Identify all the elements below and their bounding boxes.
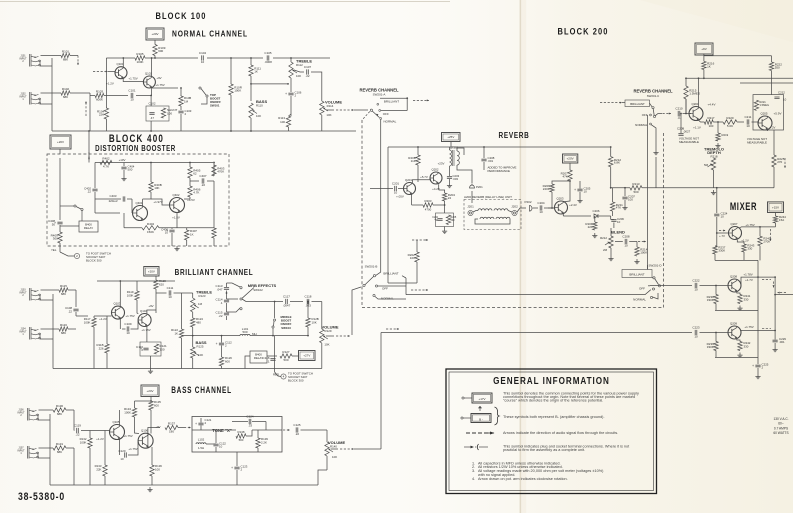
- svg-text:500: 500: [283, 358, 288, 362]
- svg-text:2M: 2M: [603, 248, 608, 252]
- svg-text:C204: C204: [537, 201, 545, 205]
- svg-text:.001: .001: [488, 159, 494, 163]
- svg-text:R114: R114: [327, 104, 334, 108]
- svg-text:R203: R203: [425, 199, 432, 203]
- svg-text:+.2V: +.2V: [770, 126, 776, 130]
- svg-text:NORMAL: NORMAL: [633, 298, 646, 302]
- svg-text:10: 10: [165, 231, 169, 235]
- svg-text:68K: 68K: [61, 292, 66, 296]
- svg-text:C124: C124: [246, 415, 254, 419]
- svg-text:1.5MEG: 1.5MEG: [760, 103, 770, 107]
- svg-text:10: 10: [539, 210, 543, 214]
- svg-text:330K: 330K: [718, 249, 725, 253]
- svg-text:330: 330: [744, 297, 749, 301]
- svg-text:C111: C111: [167, 286, 174, 290]
- svg-text:R138: R138: [238, 430, 245, 434]
- svg-text:OFF: OFF: [383, 112, 389, 116]
- svg-text:4.7K: 4.7K: [103, 165, 109, 169]
- svg-text:+17V: +17V: [478, 397, 485, 401]
- svg-text:+: +: [231, 466, 233, 470]
- svg-text:R402: R402: [102, 157, 110, 161]
- svg-text:+10V: +10V: [119, 158, 126, 162]
- svg-text:+9V: +9V: [156, 76, 161, 80]
- svg-text:10: 10: [783, 98, 787, 102]
- svg-text:C101: C101: [128, 89, 136, 93]
- svg-text:BRILLIANT: BRILLIANT: [384, 99, 399, 103]
- svg-text:+1.2V: +1.2V: [99, 317, 107, 321]
- svg-text:NORMAL: NORMAL: [381, 296, 394, 300]
- svg-text:C107: C107: [304, 65, 312, 69]
- svg-text:150K: 150K: [147, 230, 154, 234]
- svg-text:220: 220: [588, 225, 593, 229]
- svg-text:DISTORTION BOOSTER: DISTORTION BOOSTER: [95, 143, 176, 153]
- svg-text:Q105: Q105: [112, 420, 119, 424]
- svg-text:C212: C212: [778, 90, 785, 94]
- svg-text:480: 480: [196, 320, 201, 324]
- svg-text:10: 10: [394, 191, 398, 195]
- svg-text:A200 REVERB (DELAY LINE) UN: A200 REVERB (DELAY LINE) UNIT: [464, 195, 512, 199]
- svg-text:These symbols both represent B: These symbols both represent B- (amplifi…: [503, 415, 605, 419]
- svg-text:180: 180: [169, 430, 174, 434]
- svg-text:J202: J202: [511, 205, 518, 209]
- svg-text:500: 500: [633, 190, 638, 194]
- svg-text:BLOCK 300: BLOCK 300: [86, 258, 102, 262]
- svg-text:+25V: +25V: [447, 135, 454, 139]
- svg-text:6.8K: 6.8K: [614, 161, 620, 165]
- svg-text:REVERB: REVERB: [499, 130, 530, 140]
- svg-text:10: 10: [694, 335, 698, 339]
- svg-text:+9V: +9V: [701, 47, 706, 51]
- svg-text:L102: L102: [198, 438, 205, 442]
- svg-text:SW103: SW103: [281, 326, 291, 330]
- svg-text:270K: 270K: [763, 240, 770, 244]
- svg-text:.0027: .0027: [683, 130, 691, 134]
- svg-text:22K: 22K: [96, 467, 101, 471]
- svg-text:+: +: [752, 364, 754, 368]
- svg-text:500: 500: [242, 330, 247, 334]
- svg-text:.047: .047: [217, 288, 223, 292]
- svg-text:R213: R213: [632, 182, 640, 186]
- svg-text:SW102: SW102: [253, 288, 263, 292]
- svg-text:SW201-B: SW201-B: [365, 265, 378, 269]
- svg-text:100: 100: [410, 256, 415, 260]
- svg-text:+1.78V: +1.78V: [743, 273, 752, 277]
- svg-text:11K: 11K: [411, 159, 416, 163]
- svg-text:R123: R123: [199, 294, 206, 298]
- svg-text:10: 10: [126, 331, 130, 335]
- svg-text:500: 500: [451, 219, 456, 222]
- svg-text:10K: 10K: [154, 186, 159, 190]
- svg-text:+: +: [285, 92, 287, 96]
- svg-text:10K: 10K: [256, 114, 261, 118]
- svg-text:+: +: [195, 422, 197, 426]
- svg-text:Q402: Q402: [172, 193, 179, 197]
- svg-text:60 WATTS: 60 WATTS: [773, 431, 788, 435]
- svg-text:330: 330: [747, 247, 752, 251]
- svg-text:330K: 330K: [707, 345, 714, 349]
- svg-text:"course" which denotes the ori: "course" which denotes the origin of the…: [503, 399, 603, 403]
- svg-text:C109: C109: [124, 322, 132, 326]
- svg-text:+1.5V: +1.5V: [172, 216, 180, 220]
- svg-text:+23V: +23V: [438, 162, 445, 166]
- svg-text:T201: T201: [452, 146, 459, 150]
- svg-text:100K: 100K: [234, 89, 241, 93]
- svg-text:10: 10: [168, 295, 172, 299]
- svg-text:100K: 100K: [640, 251, 647, 255]
- svg-text:R129: R129: [325, 329, 332, 333]
- svg-text:Q102: Q102: [145, 71, 152, 75]
- svg-text:100K: 100K: [127, 293, 134, 297]
- svg-text:Arrow drawn on pot. arm indica: Arrow drawn on pot. arm indicates clockw…: [478, 477, 568, 481]
- svg-text:C118: C118: [305, 295, 312, 299]
- svg-text:226: 226: [99, 346, 104, 350]
- svg-text:1.5H: 1.5H: [198, 446, 204, 450]
- svg-text:470K: 470K: [217, 170, 224, 174]
- svg-text:R130: R130: [56, 404, 64, 408]
- svg-text:100: 100: [628, 198, 633, 202]
- svg-text:100K: 100K: [124, 410, 131, 414]
- svg-text:R103: R103: [96, 90, 104, 94]
- svg-text:+1.75V: +1.75V: [155, 83, 164, 87]
- svg-text:C120: C120: [119, 449, 126, 453]
- svg-text:300: 300: [53, 237, 58, 241]
- svg-text:.22: .22: [295, 432, 300, 436]
- svg-text:+.7V: +.7V: [719, 234, 725, 238]
- svg-text:+5.9V: +5.9V: [774, 112, 782, 116]
- svg-text:R404: R404: [147, 222, 155, 226]
- svg-text:+1.75V: +1.75V: [745, 223, 754, 227]
- svg-text:+5.7V: +5.7V: [420, 175, 428, 179]
- svg-text:10K: 10K: [326, 113, 331, 117]
- svg-text:22K: 22K: [99, 113, 104, 117]
- svg-text:NORMAL CHANNEL: NORMAL CHANNEL: [172, 29, 248, 39]
- svg-text:C201: C201: [392, 182, 400, 186]
- svg-text:1M: 1M: [184, 99, 189, 103]
- svg-text:SW201-C: SW201-C: [647, 94, 660, 98]
- svg-text:.22: .22: [201, 183, 206, 187]
- svg-text:10: 10: [120, 457, 124, 461]
- svg-text:10K: 10K: [324, 343, 329, 347]
- svg-text:+1.75V: +1.75V: [141, 328, 150, 332]
- svg-text:practical to firm the assembly: practical to firm the assembly as a comp…: [503, 448, 585, 452]
- svg-text:R116: R116: [60, 323, 67, 327]
- svg-text:GENERAL INFORMATION: GENERAL INFORMATION: [493, 375, 610, 386]
- svg-text:B -: B -: [479, 417, 483, 421]
- svg-text:60~: 60~: [778, 422, 784, 426]
- svg-text:Q202: Q202: [431, 167, 438, 171]
- svg-text:REVERB CHANNEL: REVERB CHANNEL: [633, 89, 673, 94]
- svg-text:10K: 10K: [312, 320, 317, 324]
- svg-text:.001: .001: [779, 340, 785, 344]
- svg-text:15A: 15A: [779, 218, 784, 222]
- svg-text:C206: C206: [593, 209, 600, 213]
- svg-text:5.6K: 5.6K: [727, 124, 733, 128]
- svg-text:R127: R127: [282, 350, 290, 354]
- svg-text:47K: 47K: [616, 206, 621, 210]
- svg-text:1M: 1M: [198, 302, 203, 306]
- svg-text:R137: R137: [168, 422, 176, 426]
- svg-text:10: 10: [201, 60, 205, 64]
- svg-text:BRILLIANT: BRILLIANT: [630, 102, 645, 106]
- svg-text:.33: .33: [248, 424, 253, 428]
- svg-text:2.2K: 2.2K: [261, 440, 267, 444]
- svg-text:+1.75V: +1.75V: [744, 325, 753, 329]
- svg-text:.22: .22: [218, 314, 223, 318]
- svg-text:C117: C117: [283, 295, 290, 299]
- svg-text:J201: J201: [467, 205, 474, 209]
- svg-text:100: 100: [160, 348, 165, 352]
- svg-text:+20V: +20V: [151, 32, 158, 36]
- svg-text:OFF: OFF: [639, 287, 645, 291]
- svg-text:62: 62: [193, 172, 197, 176]
- svg-text:SW201-D: SW201-D: [648, 264, 662, 268]
- svg-text:+9V: +9V: [155, 425, 160, 429]
- svg-text:220K: 220K: [543, 187, 550, 191]
- svg-text:R131: R131: [56, 442, 64, 446]
- svg-text:P202: P202: [524, 200, 531, 204]
- svg-text:10: 10: [219, 445, 223, 449]
- svg-text:+.05V: +.05V: [396, 195, 404, 199]
- svg-text:R219: R219: [722, 133, 729, 137]
- svg-text:.0047: .0047: [283, 304, 291, 308]
- svg-text:10: 10: [624, 244, 628, 248]
- svg-text:R140: R140: [330, 445, 337, 449]
- svg-text:0.7 AMPS: 0.7 AMPS: [774, 426, 788, 430]
- svg-text:130 V.A.C.: 130 V.A.C.: [773, 417, 788, 421]
- svg-text:C104: C104: [199, 51, 207, 55]
- svg-text:R101: R101: [62, 50, 70, 54]
- svg-text:BRILLIANT: BRILLIANT: [383, 272, 398, 276]
- svg-text:Q201: Q201: [405, 178, 412, 182]
- svg-text:Q101: Q101: [116, 62, 123, 66]
- svg-text:68K: 68K: [57, 412, 62, 416]
- svg-text:Q106: Q106: [141, 429, 148, 433]
- svg-text:10: 10: [694, 288, 698, 292]
- svg-text:.22: .22: [68, 309, 72, 313]
- svg-text:10K: 10K: [296, 74, 301, 78]
- svg-text:10K: 10K: [332, 455, 337, 459]
- svg-text:C211: C211: [745, 115, 752, 119]
- svg-text:C125: C125: [293, 423, 301, 427]
- svg-text:.1: .1: [220, 301, 223, 305]
- svg-text:RELAY: RELAY: [84, 226, 93, 230]
- svg-text:Q205: Q205: [760, 111, 767, 115]
- svg-text:+20V: +20V: [148, 269, 155, 273]
- svg-text:+27V: +27V: [303, 354, 310, 358]
- svg-text:C105: C105: [264, 51, 272, 55]
- svg-text:4.7K: 4.7K: [193, 191, 199, 195]
- svg-text:100: 100: [155, 467, 160, 471]
- svg-text:TONE "X": TONE "X": [212, 428, 231, 433]
- svg-text:R112: R112: [296, 63, 303, 67]
- svg-text:Q208: Q208: [730, 274, 737, 278]
- svg-text:C407: C407: [199, 174, 207, 178]
- svg-text:1.5MEG: 1.5MEG: [689, 92, 701, 96]
- svg-text:BASS CHANNEL: BASS CHANNEL: [171, 385, 232, 395]
- svg-text:C403: C403: [110, 194, 117, 198]
- svg-text:MEASURABLE: MEASURABLE: [747, 140, 767, 144]
- svg-text:22: 22: [448, 196, 452, 200]
- svg-text:Arrows indicate the direction: Arrows indicate the direction of audio s…: [503, 431, 618, 435]
- svg-text:R217: R217: [708, 116, 715, 120]
- svg-text:.22: .22: [305, 74, 310, 78]
- svg-text:+4.5V: +4.5V: [187, 198, 195, 202]
- svg-text:BLOCK 100: BLOCK 100: [156, 10, 207, 21]
- svg-text:4.: 4.: [472, 477, 475, 481]
- svg-text:+20V: +20V: [567, 157, 574, 161]
- svg-text:PERFORMANCE: PERFORMANCE: [488, 169, 511, 173]
- svg-text:220uuf: 220uuf: [109, 199, 118, 203]
- svg-text:Q104: Q104: [140, 309, 147, 313]
- svg-text:R105: R105: [136, 52, 144, 56]
- svg-text:C102: C102: [149, 102, 156, 106]
- svg-text:1K: 1K: [707, 64, 711, 68]
- svg-text:+1.2V: +1.2V: [96, 437, 104, 441]
- svg-text:P201: P201: [476, 185, 483, 189]
- svg-text:38-5380-0: 38-5380-0: [18, 491, 65, 503]
- svg-text:1K: 1K: [254, 70, 258, 74]
- svg-text:+: +: [574, 188, 576, 192]
- svg-text:500: 500: [239, 438, 244, 442]
- svg-text:68K: 68K: [61, 331, 66, 335]
- svg-text:10: 10: [130, 98, 134, 102]
- svg-text:50: 50: [52, 222, 56, 226]
- svg-text:100: 100: [709, 124, 714, 128]
- svg-text:C119: C119: [74, 424, 81, 428]
- svg-text:+1.1V: +1.1V: [693, 126, 701, 130]
- svg-text:100: 100: [280, 120, 285, 124]
- svg-text:100K: 100K: [80, 440, 87, 444]
- svg-text:MEASURABLE: MEASURABLE: [679, 140, 699, 144]
- svg-text:3.: 3.: [472, 469, 475, 473]
- svg-text:R115: R115: [60, 284, 67, 288]
- svg-text:SW201-A: SW201-A: [373, 93, 386, 97]
- svg-text:Q401: Q401: [135, 201, 142, 205]
- svg-text:5M: 5M: [704, 163, 709, 167]
- svg-text:+1.75V: +1.75V: [128, 447, 137, 451]
- svg-text:68K: 68K: [63, 95, 68, 99]
- svg-text:MIXER: MIXER: [730, 201, 757, 212]
- svg-text:Q209: Q209: [730, 321, 737, 325]
- svg-text:550: 550: [775, 65, 780, 69]
- svg-text:+20V: +20V: [57, 140, 64, 144]
- svg-text:C222: C222: [692, 279, 700, 283]
- svg-text:.0068: .0068: [264, 60, 272, 64]
- svg-text:+1.75V: +1.75V: [125, 314, 134, 318]
- svg-text:+24V: +24V: [146, 389, 153, 393]
- svg-text:+1.75V: +1.75V: [128, 77, 137, 81]
- svg-text:Q103: Q103: [113, 302, 120, 306]
- svg-text:600: 600: [225, 359, 230, 363]
- svg-text:BLOCK 300: BLOCK 300: [288, 378, 304, 382]
- svg-text:C223: C223: [692, 326, 700, 330]
- svg-text:C208: C208: [622, 235, 630, 239]
- svg-text:10: 10: [721, 215, 725, 219]
- svg-text:NORMAL: NORMAL: [635, 123, 648, 127]
- svg-text:10: 10: [584, 190, 588, 194]
- svg-text:BRILLIANT: BRILLIANT: [629, 272, 644, 276]
- svg-text:+15V: +15V: [772, 205, 779, 209]
- svg-text:.47: .47: [150, 116, 154, 120]
- svg-text:.003: .003: [453, 177, 459, 181]
- svg-text:Q207: Q207: [730, 222, 737, 226]
- svg-text:C210: C210: [675, 107, 683, 111]
- svg-text:330K: 330K: [707, 298, 714, 302]
- svg-text:10K: 10K: [198, 353, 203, 357]
- svg-text:600: 600: [154, 403, 159, 407]
- svg-text:SW101: SW101: [210, 103, 220, 107]
- svg-text:100K: 100K: [84, 320, 91, 324]
- svg-text:R125: R125: [197, 344, 204, 348]
- svg-text:+: +: [216, 342, 218, 346]
- svg-text:100: 100: [167, 112, 172, 116]
- svg-text:68K: 68K: [57, 450, 62, 454]
- svg-text:11: 11: [677, 116, 680, 120]
- svg-text:270: 270: [777, 160, 782, 164]
- svg-text:YEL: YEL: [51, 248, 57, 252]
- svg-text:600: 600: [158, 49, 163, 53]
- svg-text:+1.97V: +1.97V: [153, 200, 162, 204]
- svg-text:Q204: Q204: [691, 102, 698, 106]
- svg-text:68K: 68K: [63, 58, 68, 62]
- svg-text:.22: .22: [87, 190, 91, 194]
- svg-text:BRILLIANT CHANNEL: BRILLIANT CHANNEL: [175, 267, 254, 277]
- svg-text:10: 10: [746, 124, 750, 128]
- svg-text:OFF: OFF: [382, 287, 388, 291]
- svg-text:1K: 1K: [174, 331, 178, 335]
- svg-text:OFF: OFF: [642, 113, 648, 117]
- svg-text:100K: 100K: [136, 60, 143, 64]
- svg-text:+1.7V: +1.7V: [745, 278, 753, 282]
- svg-text:47K: 47K: [562, 175, 567, 179]
- svg-text:1K: 1K: [190, 232, 194, 236]
- svg-text:+1.2V: +1.2V: [106, 82, 114, 86]
- svg-text:600K: 600K: [96, 98, 103, 102]
- svg-text:10: 10: [617, 220, 621, 224]
- svg-text:500: 500: [128, 168, 133, 172]
- svg-text:+4.4V: +4.4V: [708, 103, 716, 107]
- svg-text:R218: R218: [711, 154, 718, 158]
- svg-text:R110: R110: [256, 104, 263, 108]
- svg-text:R102: R102: [62, 87, 70, 91]
- svg-text:Q203: Q203: [556, 196, 563, 200]
- svg-text:R212: R212: [600, 236, 607, 240]
- svg-text:4700: 4700: [425, 208, 432, 212]
- svg-text:330: 330: [744, 344, 749, 348]
- svg-text:+1.75V: +1.75V: [123, 434, 132, 438]
- svg-text:BLOCK 200: BLOCK 200: [558, 26, 609, 37]
- svg-text:NORMAL: NORMAL: [384, 119, 397, 123]
- svg-text:+2.4V: +2.4V: [569, 203, 577, 207]
- svg-text:R220: R220: [726, 116, 734, 120]
- svg-text:+9V: +9V: [148, 304, 153, 308]
- svg-text:620: 620: [159, 282, 164, 286]
